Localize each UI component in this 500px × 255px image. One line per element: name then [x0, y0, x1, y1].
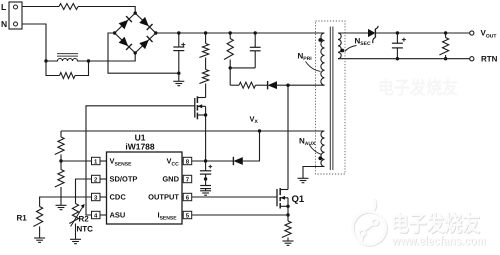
node Vcc — [204, 159, 207, 162]
fuse F1 — [59, 4, 78, 10]
wire D2 to Vcc node — [192, 160, 233, 162]
leader NPRI — [306, 62, 321, 72]
svg-text:OUTPUT: OUTPUT — [148, 193, 179, 202]
leader NAUX — [310, 145, 322, 155]
startup MOSFET Q2 — [195, 96, 208, 161]
common-mode choke L1 — [46, 59, 89, 62]
pin 4 box — [92, 211, 101, 218]
pin 8 box — [183, 157, 192, 164]
thermistor R2 NTC — [69, 204, 78, 224]
svg-text:ASU: ASU — [110, 211, 126, 220]
svg-text:iW1788: iW1788 — [125, 142, 155, 152]
terminal RTN — [470, 57, 474, 61]
primary phase dot — [318, 38, 322, 42]
svg-text:www.elecfans.com: www.elecfans.com — [391, 234, 486, 248]
bridge diode top-right — [139, 17, 149, 26]
node C1 top — [177, 31, 180, 34]
startup resistor R4 — [205, 58, 207, 70]
primary ground at bulk cap — [178, 73, 180, 81]
Vcc capacitor C2a — [205, 161, 207, 171]
startup resistor R3 — [204, 31, 207, 34]
wire clamp down — [229, 68, 231, 85]
svg-text:NTC: NTC — [77, 225, 94, 234]
svg-text:N: N — [1, 19, 7, 29]
common-mode choke L1 core — [57, 53, 78, 55]
pin 1 box — [92, 157, 101, 164]
svg-text:R1: R1 — [17, 214, 28, 223]
node clamp — [229, 66, 232, 69]
resistor across choke — [46, 61, 60, 76]
svg-text:Q1: Q1 — [292, 194, 305, 205]
bridge diode top-left — [119, 20, 129, 29]
wire N to choke — [22, 24, 46, 61]
svg-text:电子发烧友: 电子发烧友 — [391, 211, 480, 236]
transformer shield dashed box — [316, 21, 346, 174]
output rail — [375, 32, 469, 34]
node Vx — [258, 129, 261, 132]
wire fuse to bridge top — [78, 7, 135, 14]
transformer core — [329, 27, 331, 171]
wire Q2 gate to ASU — [86, 106, 195, 215]
svg-text:RTN: RTN — [481, 55, 498, 64]
clamp series resistor — [230, 84, 239, 86]
current sense resistor — [287, 215, 289, 221]
svg-text:GND: GND — [162, 175, 179, 184]
bulk capacitor C1 — [178, 33, 180, 47]
Vx rail from divider to aux winding — [61, 130, 325, 132]
bridge corner nodes — [134, 11, 137, 14]
svg-text:CDC: CDC — [110, 193, 127, 202]
watermark logo — [353, 199, 387, 245]
wire Q1 drain — [287, 85, 289, 189]
wire secondary top to D4 — [338, 32, 368, 34]
node Vsense tap — [59, 159, 62, 162]
wire Vx to Vcc diode — [243, 131, 260, 161]
bridge rectifier BR1 frame — [115, 13, 156, 53]
wire choke to bridge bottom — [89, 53, 136, 61]
pin 5 box — [183, 211, 192, 218]
resistor R1 — [33, 207, 42, 227]
wire OUTPUT to Q1 gate — [192, 196, 277, 198]
svg-text:电子发烧友: 电子发烧友 — [378, 78, 459, 98]
wire ISENSE pin to Q1 source — [192, 214, 288, 216]
node choke right — [87, 59, 90, 62]
Vcc diode D2 — [233, 157, 242, 165]
pin 3 box — [92, 193, 101, 200]
op IC U1 iW1788 body — [107, 152, 183, 224]
clamp diode D3 — [268, 81, 277, 89]
clamp resistor — [229, 31, 232, 34]
ground at R2 — [70, 238, 81, 240]
load resistor — [444, 31, 447, 34]
pin 6 box — [183, 193, 192, 200]
clamp capacitor — [254, 31, 257, 34]
HV DC top rail — [156, 32, 325, 34]
pin 2 box — [92, 175, 101, 182]
wire Q1 source to Isense — [287, 206, 289, 215]
primary winding NPRI — [321, 33, 325, 85]
wire bridge negative to ground rail — [108, 33, 179, 73]
wire pin3 to R1 — [40, 197, 92, 207]
bridge diode bottom-left — [119, 37, 129, 46]
wire tap to pin1 — [61, 160, 92, 162]
node Q1 drain / primary bottom — [286, 84, 289, 87]
wire aux bottom to ground — [303, 167, 325, 179]
ground at sense resistor — [283, 240, 294, 242]
Vcc capacitor C2b — [205, 179, 207, 186]
secondary phase dot — [340, 49, 344, 53]
AC input connector J1 — [9, 2, 22, 29]
bridge diode bottom-right — [139, 40, 149, 49]
aux phase dot — [318, 156, 322, 160]
terminal VOUT — [470, 31, 474, 35]
power MOSFET Q1 — [277, 188, 290, 209]
svg-text:L: L — [1, 2, 6, 12]
ground at aux winding — [298, 177, 309, 179]
svg-text:SD/OTP: SD/OTP — [110, 175, 138, 184]
node choke left — [44, 59, 47, 62]
Vsense divider upper resistor — [60, 131, 62, 137]
pin 7 box — [183, 175, 192, 182]
output schottky diode D4 — [368, 29, 375, 37]
svg-text:R2: R2 — [79, 215, 90, 224]
wire to primary bottom — [288, 84, 325, 86]
node Isense — [286, 213, 289, 216]
RTN rail — [338, 58, 470, 60]
output capacitor C3 — [396, 31, 399, 34]
wire pin2 to NTC — [76, 179, 92, 204]
ground at Vcc caps — [200, 190, 211, 192]
node GND pin — [204, 177, 207, 180]
ground at R1 — [34, 237, 45, 239]
leader NSEC — [345, 46, 357, 52]
auxiliary winding NAUX — [321, 131, 325, 167]
ground at divider — [56, 204, 67, 206]
secondary winding NSEC — [338, 33, 341, 59]
Vsense divider lower resistor — [60, 161, 62, 170]
node bulk cap bottom — [177, 72, 180, 75]
wire L to fuse — [22, 6, 59, 8]
